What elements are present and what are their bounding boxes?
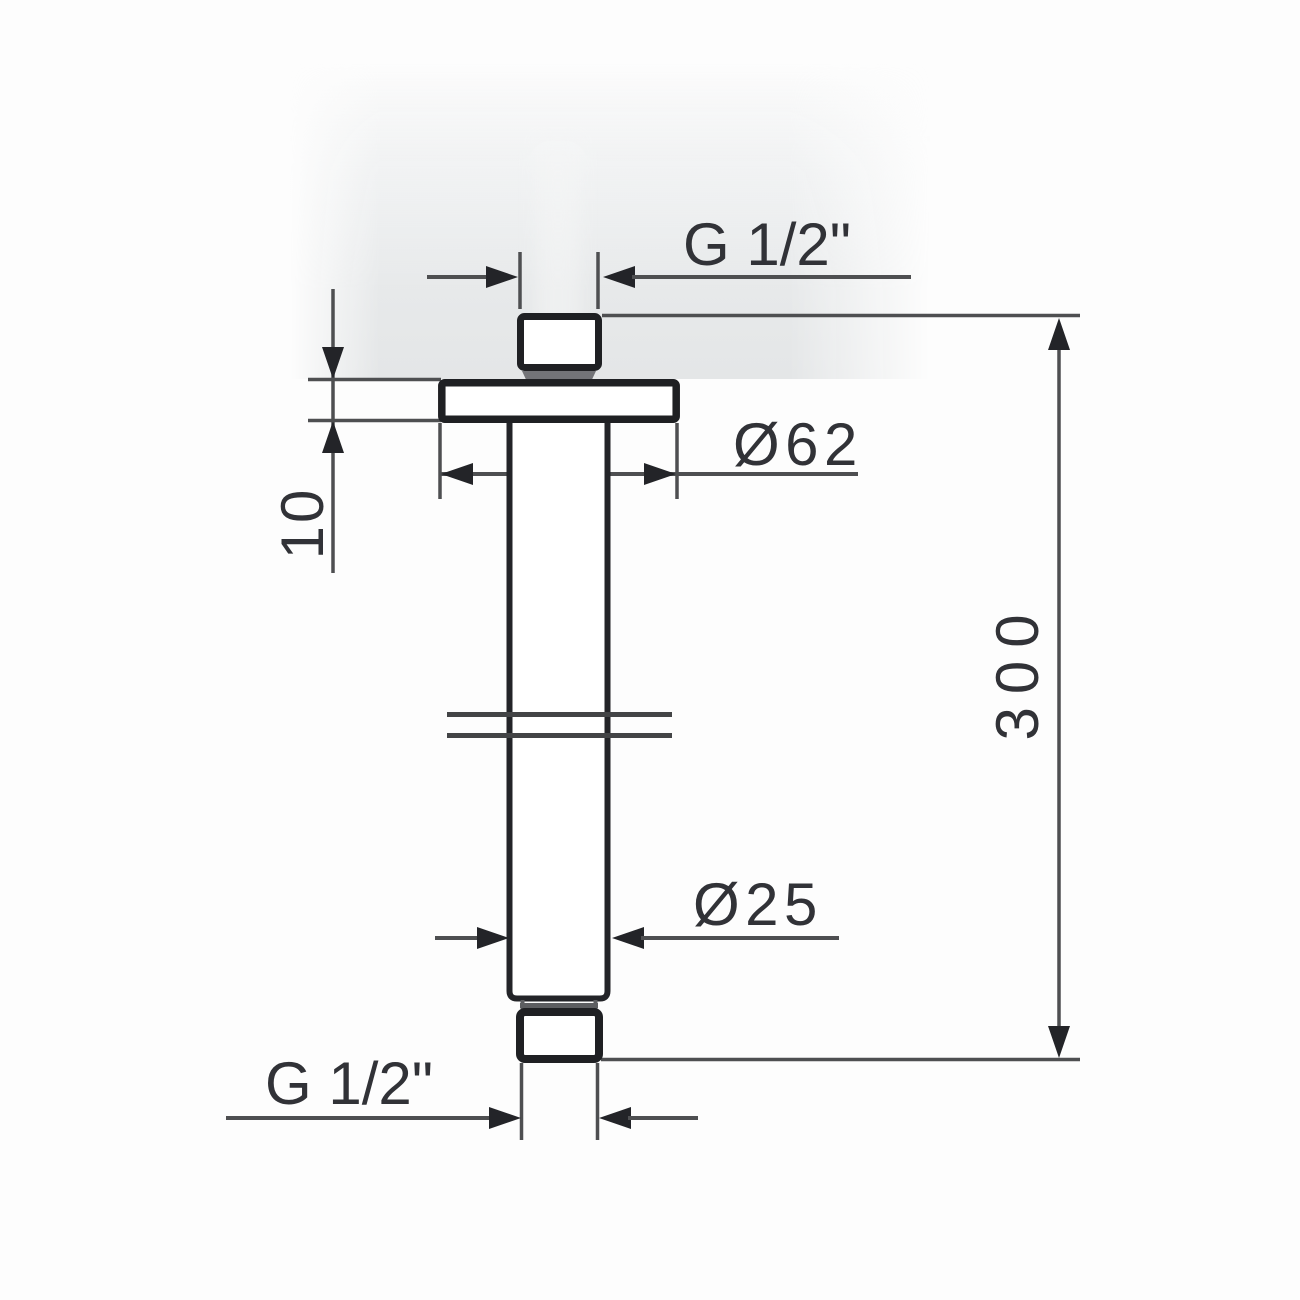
wire: diameter 62 dimension line [441,472,858,476]
wire: 300 vertical dimension line [1057,344,1061,1032]
wire: bottom G 1/2 dimension line right segment [628,1116,698,1120]
wire: 10 extension line upper [308,378,441,382]
wire: diameter 62 extension line left [438,423,442,499]
wire: top G 1/2 dimension line right segment [632,275,911,279]
component: bottom nut (G 1/2 thread) [520,1012,599,1059]
wire: 300 top extension line [602,314,1080,318]
svg-text:Ø25: Ø25 [693,871,823,938]
wire: diameter 25 dimension line right segment [641,936,839,940]
svg-text:300: 300 [984,601,1051,740]
component: pipe body [510,420,608,999]
arrow: top G 1/2 left (points right) [486,266,518,288]
wire: 10 extension line lower [308,419,441,423]
component: collar under top nut [522,371,596,380]
arrow: diameter 25 right (points left) [612,927,644,949]
arrow: diameter 62 left (points left) [441,463,473,485]
arrow: bottom G 1/2 right (points left) [599,1107,631,1129]
svg-text:10: 10 [269,487,336,560]
background photo grey wash [290,62,930,379]
svg-text:G 1/2": G 1/2" [683,211,851,278]
component: ceiling flange [442,383,676,419]
arrow: 10 lower (points up) [322,421,344,453]
arrow: diameter 25 left (points right) [477,927,509,949]
arrow: diameter 62 right (points right) [644,463,676,485]
wire: bottom G 1/2 extension line left [520,1063,524,1140]
arrow: top G 1/2 right (points left) [603,266,635,288]
component: pipe break line upper [447,712,672,717]
arrow: bottom G 1/2 left (points right) [489,1107,521,1129]
wire: 10 vertical dimension line [331,289,335,573]
component: neck above bottom nut [520,1003,598,1008]
wire: bottom G 1/2 dimension line left segment [226,1116,493,1120]
component: neck side left [521,1000,525,1009]
wire: diameter 25 dimension line left segment [435,936,481,940]
wire: diameter 62 extension line right [675,423,679,499]
svg-text:G 1/2": G 1/2" [265,1050,433,1117]
arrow: 300 top (points up) [1048,318,1070,350]
wire: 300 bottom extension line [601,1058,1080,1062]
component: top nut (G 1/2 thread) [521,317,599,368]
arrow: 10 upper (points down) [322,347,344,379]
wire: top G 1/2 dimension line left segment [427,275,492,279]
svg-text:Ø62: Ø62 [733,411,863,478]
arrow: 300 bottom (points down) [1048,1026,1070,1058]
component: neck side right [594,1000,598,1009]
wire: top G 1/2 extension line right [596,252,600,309]
component: pipe break line lower [447,733,672,738]
wire: top G 1/2 extension line left [518,252,522,309]
wire: bottom G 1/2 extension line right [596,1063,600,1140]
